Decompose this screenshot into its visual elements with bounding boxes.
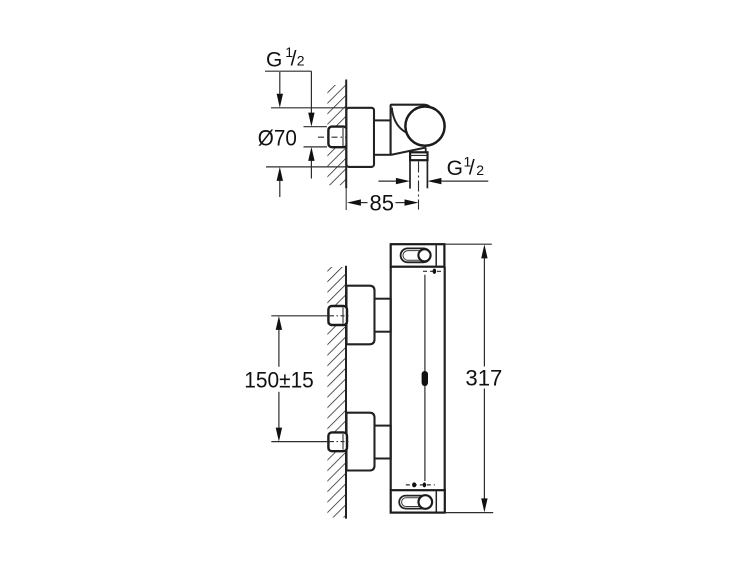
- bar front-face middle line: [424, 275, 426, 481]
- lower wall nut: [328, 432, 347, 451]
- wall surface line (top view): [345, 80, 347, 189]
- bottom handle pill outer: [399, 496, 431, 509]
- svg-text:Ø70: Ø70: [258, 126, 297, 151]
- dimension arrow down (O70, to flange top): [279, 72, 281, 94]
- outlet neck lines: [410, 150, 412, 152]
- marker blob on middle line: [422, 371, 428, 386]
- bottom handle pill inner: [402, 498, 430, 507]
- upper mounting bracket: [347, 286, 375, 345]
- extension line flange bottom: [266, 166, 347, 168]
- upper wall nut: [328, 306, 347, 325]
- svg-text:2: 2: [297, 53, 305, 69]
- svg-text:/: /: [291, 48, 297, 71]
- outlet pipe centerline: [418, 162, 420, 210]
- leader line under G 1/2 label: [265, 70, 311, 72]
- upper nut centerline / extension line: [271, 315, 330, 317]
- bottom end cap: [391, 490, 445, 512]
- outlet nut: [410, 152, 427, 160]
- lower bracket step: [375, 426, 391, 459]
- extension line 317 top: [444, 243, 491, 245]
- svg-text:G: G: [447, 157, 463, 180]
- extension line 317 bottom: [445, 512, 493, 514]
- dimension arrow down (G1/2, to nut top): [310, 71, 312, 113]
- svg-text:2: 2: [476, 162, 484, 178]
- extension line nut bottom: [304, 146, 328, 148]
- dimension 317: bottom arrow: [483, 389, 485, 499]
- top end cap: [391, 244, 445, 267]
- svg-text:/: /: [469, 156, 475, 179]
- label G 1/2 (top inlet thread): [266, 44, 305, 71]
- dimension G1/2 outlet: left arrow: [378, 180, 396, 182]
- svg-text:85: 85: [370, 191, 395, 216]
- top handle pill inner: [403, 251, 428, 261]
- wall hatching (top view): [327, 85, 345, 185]
- bar body left edge: [390, 267, 392, 491]
- holder housing outline: [391, 105, 430, 155]
- label G 1/2 (outlet thread): [447, 154, 485, 180]
- dimension arrow up (O70, to flange bottom): [277, 167, 283, 181]
- top handle pill outer: [401, 248, 431, 262]
- dimension arrow up (G1/2, to nut bottom): [308, 147, 314, 161]
- extension line nut top: [304, 126, 328, 128]
- dimension 317: top arrow: [481, 244, 487, 258]
- upper bracket step: [375, 299, 391, 332]
- lower mounting bracket: [347, 413, 375, 471]
- knob circle (holder ball): [405, 107, 444, 146]
- svg-text:150±15: 150±15: [244, 367, 313, 392]
- dimension 150±15: bottom arrow: [278, 392, 280, 428]
- bottom handle knob circle: [419, 495, 433, 509]
- wall extension line below (top view): [345, 188, 347, 210]
- lower nut centerline / extension line: [271, 441, 330, 443]
- dimension G1/2 outlet: right arrow: [427, 178, 441, 184]
- wall hatching (bottom view): [327, 267, 345, 518]
- body between flange and holder: [374, 120, 391, 154]
- bottom centerline dash-dot with oval markers: [406, 484, 435, 486]
- wall nut (inlet connection, top view): [328, 127, 347, 148]
- wall surface line (bottom view): [345, 266, 347, 519]
- flange / escutcheon (top view): [346, 108, 374, 167]
- bar body right edge: [444, 267, 446, 491]
- svg-text:G: G: [266, 48, 282, 71]
- top centerline dash-dot with oval marker: [423, 270, 445, 272]
- dimension 85: right arrow at pipe centerline: [395, 202, 405, 204]
- dimension 150±15: top arrow: [276, 316, 282, 330]
- svg-text:317: 317: [465, 365, 502, 390]
- dimension 85: left arrow at wall: [347, 199, 361, 205]
- extension line flange top: [271, 107, 347, 109]
- top handle knob circle: [418, 249, 430, 261]
- holder fillet curve: [392, 108, 408, 134]
- nut centerline (top view): [318, 136, 350, 138]
- outlet pipe lines: [409, 160, 411, 188]
